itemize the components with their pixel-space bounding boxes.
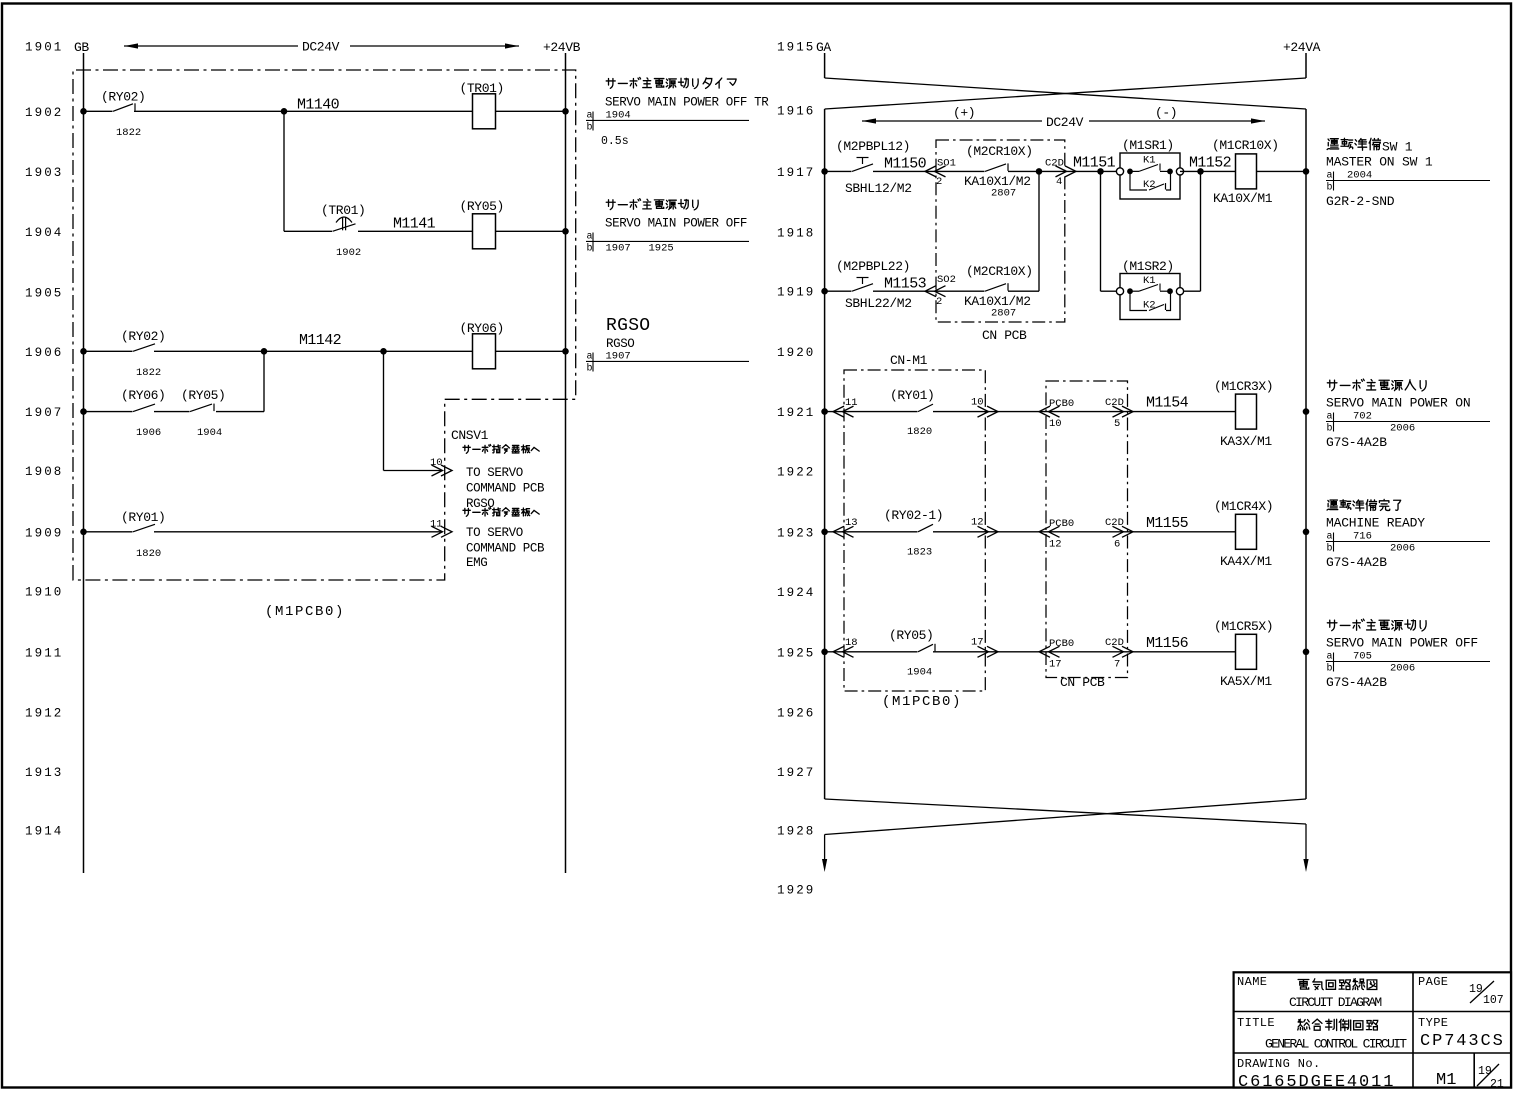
- svg-text:1913: 1913: [25, 766, 63, 780]
- svg-text:1925: 1925: [777, 646, 815, 660]
- svg-text:(M2PBPL12): (M2PBPL12): [836, 139, 910, 154]
- svg-text:b: b: [1327, 182, 1333, 194]
- bus +24VB (right vertical bus): [565, 53, 567, 873]
- node rung1919 @+ bus: [821, 288, 828, 295]
- wire rung 1919 c (to M1151 vertical): [1008, 290, 1039, 292]
- svg-text:1914: 1914: [25, 825, 63, 839]
- bus (+) left vertical: [824, 109, 826, 799]
- wire rung 1904 left: [284, 230, 332, 232]
- node rung1904 @+24VB bus: [562, 228, 569, 235]
- wire rung 1917 e: [1257, 170, 1307, 172]
- node rung1906 @+24VB bus: [562, 348, 569, 355]
- svg-text:1907: 1907: [25, 406, 63, 420]
- svg-text:1927: 1927: [777, 766, 815, 780]
- svg-text:TITLE: TITLE: [1237, 1016, 1275, 1030]
- wire rung 1907 left: [84, 411, 133, 413]
- wire M1152 down to M1SR2: [1200, 171, 1202, 291]
- node rung1907 @GB bus: [80, 408, 87, 415]
- svg-text:1925: 1925: [649, 243, 674, 255]
- wire rung 1917 d: [1180, 170, 1236, 172]
- svg-text:1918: 1918: [777, 226, 815, 240]
- svg-text:M1: M1: [1436, 1071, 1456, 1090]
- svg-text:1920: 1920: [777, 346, 815, 360]
- svg-text:COMMAND PCB: COMMAND PCB: [466, 482, 545, 496]
- contact (RY02-1) (rung 1923): [918, 524, 933, 532]
- svg-text:1820: 1820: [907, 426, 932, 438]
- svg-text:(RY02-1): (RY02-1): [884, 508, 943, 523]
- svg-text:M1140: M1140: [297, 97, 340, 114]
- connector CN-M1 pin 17 chevron: [978, 646, 999, 657]
- contact M2CR10X (rung 1917): [985, 164, 1006, 172]
- svg-text:6: 6: [1114, 538, 1120, 550]
- svg-text:b: b: [1327, 423, 1333, 435]
- svg-text:MACHINE READY: MACHINE READY: [1326, 516, 1425, 531]
- svg-text:SBHL12/M2: SBHL12/M2: [845, 181, 912, 196]
- svg-text:a: a: [1327, 412, 1333, 423]
- svg-text:G7S-4A2B: G7S-4A2B: [1326, 555, 1387, 570]
- svg-text:RGSO: RGSO: [466, 497, 494, 511]
- PCB boundary M1PCB0 (dash-dot outline with CNSV1 notch): [73, 70, 576, 580]
- svg-text:1912: 1912: [25, 706, 63, 720]
- wire rung 1904 right: [496, 230, 566, 232]
- M1SR1 K2 contact branch: [1130, 171, 1171, 190]
- svg-text:(RY01): (RY01): [890, 388, 934, 403]
- wire crossover left-bus to right arrow: [825, 799, 1306, 824]
- svg-text:1909: 1909: [25, 526, 63, 540]
- svg-text:1904: 1904: [25, 226, 63, 240]
- svg-text:SERVO MAIN POWER OFF: SERVO MAIN POWER OFF: [1326, 636, 1478, 651]
- node rung1923 @- bus: [1303, 529, 1310, 536]
- wire rung 1906 right: [496, 350, 566, 352]
- svg-text:21: 21: [1490, 1078, 1504, 1091]
- node rung1902 @GB bus: [80, 108, 87, 115]
- coil RY06: [473, 334, 496, 369]
- svg-text:11: 11: [845, 397, 858, 409]
- M1SR2 K1 contact: [1130, 290, 1139, 292]
- DC24V span arrow (right section): [862, 120, 1042, 122]
- svg-text:2807: 2807: [991, 308, 1016, 320]
- svg-text:1908: 1908: [25, 465, 63, 479]
- svg-text:K2: K2: [1143, 300, 1156, 312]
- svg-text:K1: K1: [1143, 275, 1156, 287]
- svg-text:1929: 1929: [777, 884, 815, 898]
- svg-text:17: 17: [1049, 658, 1062, 670]
- svg-text:SW 1: SW 1: [1382, 140, 1413, 155]
- node M1152: [1197, 168, 1204, 175]
- svg-text:(RY02): (RY02): [121, 329, 165, 344]
- svg-text:2006: 2006: [1390, 663, 1415, 675]
- wire +24VA lead-in: [1305, 53, 1307, 78]
- node rung1909 @GB bus: [80, 529, 87, 536]
- contact RY02 (NO, rung 1902): [113, 104, 133, 112]
- svg-text:12: 12: [971, 517, 984, 529]
- contact TR01 (timer contact, rung 1904): [333, 224, 356, 232]
- svg-text:NAME: NAME: [1237, 975, 1267, 989]
- wire branch M1140 down to rung 1904: [283, 111, 285, 231]
- svg-text:5: 5: [1114, 418, 1120, 430]
- continuation arrow bottom-right: [1305, 824, 1307, 860]
- bus GB (left vertical bus): [83, 53, 85, 873]
- text サーボ指令基板へ (pin10): [463, 444, 539, 453]
- svg-text:19: 19: [1469, 983, 1483, 996]
- svg-text:KA10X/M1: KA10X/M1: [1213, 191, 1273, 206]
- svg-text:PAGE: PAGE: [1418, 975, 1448, 989]
- svg-text:TO SERVO: TO SERVO: [466, 466, 523, 480]
- node M1151: [1036, 168, 1043, 175]
- svg-text:GENERAL CONTROL CIRCUIT: GENERAL CONTROL CIRCUIT: [1265, 1037, 1407, 1052]
- svg-text:CN PCB: CN PCB: [982, 328, 1027, 343]
- svg-text:SERVO MAIN POWER OFF: SERVO MAIN POWER OFF: [605, 217, 747, 231]
- svg-text:107: 107: [1483, 994, 1504, 1007]
- connector CNSV1 pin 11 chevron: [432, 526, 453, 537]
- svg-text:(RY01): (RY01): [121, 510, 165, 525]
- svg-text:CN-M1: CN-M1: [890, 353, 928, 368]
- wire rung 1909 to CNSV1: [154, 531, 442, 533]
- M1SR2 inner nodes: [1127, 288, 1133, 294]
- svg-text:(RY02): (RY02): [101, 90, 145, 105]
- svg-text:(RY06): (RY06): [460, 321, 504, 336]
- svg-text:G7S-4A2B: G7S-4A2B: [1326, 435, 1387, 450]
- M1SR1 terminal circles: [1116, 168, 1123, 175]
- coil M1CR5X: [1236, 634, 1257, 669]
- svg-text:M1152: M1152: [1189, 155, 1231, 172]
- svg-text:GA: GA: [816, 40, 831, 55]
- svg-text:716: 716: [1353, 531, 1372, 543]
- svg-text:(M2CR10X): (M2CR10X): [966, 264, 1033, 279]
- svg-text:1822: 1822: [116, 127, 141, 139]
- svg-text:1911: 1911: [25, 646, 63, 660]
- svg-text:M1154: M1154: [1146, 395, 1189, 412]
- wire rung 1917 a: [825, 170, 852, 172]
- node rung1917 @+ bus: [821, 168, 828, 175]
- wire rung 1902 mid: [134, 110, 473, 112]
- svg-text:(RY06): (RY06): [121, 388, 165, 403]
- svg-text:1822: 1822: [136, 367, 161, 379]
- svg-text:1921: 1921: [777, 406, 815, 420]
- wire rung 1902 left: [84, 110, 113, 112]
- wire rung 1909: [84, 531, 133, 533]
- svg-text:SO2: SO2: [937, 274, 956, 286]
- svg-text:1906: 1906: [136, 427, 161, 439]
- wire rung 1925 a: [825, 651, 918, 653]
- svg-text:1915: 1915: [777, 41, 815, 55]
- svg-text:b: b: [1327, 663, 1333, 675]
- connector C2D pin 7 chevron: [1113, 646, 1134, 657]
- svg-text:C2D: C2D: [1105, 397, 1124, 409]
- svg-text:(TR01): (TR01): [321, 203, 365, 218]
- wire rung 1919 b: [873, 290, 985, 292]
- svg-text:DC24V: DC24V: [1046, 115, 1084, 130]
- svg-text:CIRCUIT DIAGRAM: CIRCUIT DIAGRAM: [1289, 995, 1381, 1010]
- svg-text:M1142: M1142: [299, 332, 341, 349]
- svg-text:1907: 1907: [606, 243, 631, 255]
- connector PCB0 pin 17 chevron: [1039, 646, 1060, 657]
- connector C2D pin 6 chevron: [1113, 526, 1134, 537]
- node rung1917 @- bus: [1303, 168, 1310, 175]
- node rung1921 @+ bus: [821, 408, 828, 415]
- wire rung 1923 b: [933, 531, 1236, 533]
- node M1151b: [1097, 168, 1104, 175]
- svg-text:1906: 1906: [25, 346, 63, 360]
- svg-text:10: 10: [971, 397, 984, 409]
- svg-text:K2: K2: [1143, 179, 1156, 191]
- coil M1CR3X: [1236, 394, 1257, 429]
- svg-text:RGSO: RGSO: [606, 337, 634, 351]
- svg-text:C2D: C2D: [1105, 517, 1124, 529]
- svg-text:18: 18: [845, 637, 858, 649]
- connector CN-M1 pin 12 chevron: [978, 526, 999, 537]
- svg-text:(RY05): (RY05): [181, 388, 225, 403]
- svg-text:b: b: [587, 363, 593, 375]
- svg-text:RGSO: RGSO: [606, 316, 650, 336]
- contact (RY01) (rung 1921): [918, 404, 933, 412]
- svg-text:+24VB: +24VB: [543, 40, 581, 55]
- svg-text:a: a: [1327, 652, 1333, 663]
- node rung1906 @GB bus: [80, 348, 87, 355]
- svg-text:KA4X/M1: KA4X/M1: [1220, 554, 1272, 569]
- svg-text:CP743CS: CP743CS: [1420, 1032, 1505, 1051]
- svg-text:a: a: [1327, 532, 1333, 543]
- svg-text:CN PCB: CN PCB: [1060, 675, 1105, 690]
- svg-text:(M1SR1): (M1SR1): [1122, 138, 1174, 153]
- text 運転準備完了: [1327, 499, 1401, 510]
- wire GA lead-in: [824, 53, 826, 78]
- svg-text:DC24V: DC24V: [302, 40, 340, 55]
- wire rung 1919 a: [825, 290, 852, 292]
- text 総合制御回路: [1298, 1019, 1378, 1031]
- svg-text:1917: 1917: [777, 166, 815, 180]
- svg-text:(M1PCB0): (M1PCB0): [882, 694, 962, 710]
- connector PCB0 pin 12 chevron: [1039, 526, 1060, 537]
- svg-text:(M1CR10X): (M1CR10X): [1212, 138, 1279, 153]
- connector box CN PCB (upper, dash-dot): [936, 140, 1065, 322]
- svg-text:DRAWING No.: DRAWING No.: [1237, 1057, 1321, 1071]
- svg-text:(RY05): (RY05): [889, 628, 933, 643]
- svg-text:TYPE: TYPE: [1418, 1016, 1448, 1030]
- wire rung 1906 mid: [154, 350, 473, 352]
- contact (RY05) (rung 1925): [918, 644, 933, 652]
- svg-text:(M1CR3X): (M1CR3X): [1214, 379, 1273, 394]
- svg-text:1904: 1904: [606, 110, 631, 122]
- M1SR1 inner nodes: [1127, 169, 1133, 175]
- svg-text:4: 4: [1056, 176, 1062, 188]
- svg-text:(M1PCB0): (M1PCB0): [265, 604, 345, 620]
- M1SR2 K2 contact branch: [1130, 291, 1171, 310]
- svg-text:1902: 1902: [336, 247, 361, 259]
- connector CN-M1 pin 13 chevron: [833, 526, 854, 537]
- svg-text:2006: 2006: [1390, 423, 1415, 435]
- svg-text:M1150: M1150: [884, 156, 927, 173]
- svg-text:TO SERVO: TO SERVO: [466, 526, 523, 540]
- connector CN-M1 pin 18 chevron: [833, 646, 854, 657]
- svg-text:EMG: EMG: [466, 556, 487, 570]
- safety relay M1SR1 box: [1120, 153, 1180, 199]
- wire rung 1921 a: [825, 411, 918, 413]
- svg-text:1924: 1924: [777, 586, 815, 600]
- svg-text:C6165DGEE4011: C6165DGEE4011: [1238, 1073, 1395, 1092]
- node M1140 junction: [281, 108, 288, 115]
- svg-text:1820: 1820: [136, 548, 161, 560]
- contact M2PBPL22 (pushbutton): [852, 284, 873, 292]
- svg-text:11: 11: [430, 519, 443, 531]
- connector CN-M1 pin 10 chevron: [978, 406, 999, 417]
- svg-text:1904: 1904: [197, 427, 222, 439]
- svg-text:12: 12: [1049, 538, 1062, 550]
- svg-text:1926: 1926: [777, 706, 815, 720]
- svg-text:1901: 1901: [25, 41, 63, 55]
- svg-text:2807: 2807: [991, 188, 1016, 200]
- svg-text:1922: 1922: [777, 466, 815, 480]
- wire rung 1902 right: [496, 110, 566, 112]
- svg-text:M1141: M1141: [393, 216, 436, 233]
- connector CNSV1 pin 10 chevron: [432, 465, 453, 476]
- svg-text:M1155: M1155: [1146, 515, 1189, 532]
- node rung1925 @+ bus: [821, 649, 828, 656]
- svg-text:10: 10: [430, 457, 443, 469]
- continuation arrow bottom-left: [824, 835, 826, 861]
- coil TR01 (timer): [473, 94, 496, 129]
- wire M1151 down to rung 1919: [1038, 171, 1040, 291]
- svg-text:GB: GB: [74, 40, 89, 55]
- connector C2D chevron (rung 1917): [1056, 166, 1077, 177]
- svg-text:KA5X/M1: KA5X/M1: [1220, 674, 1272, 689]
- text 運転準備SW1: [1327, 138, 1380, 150]
- svg-text:KA3X/M1: KA3X/M1: [1220, 434, 1272, 449]
- svg-text:17: 17: [971, 637, 984, 649]
- contact M2CR10X (rung 1919): [985, 284, 1006, 292]
- wire rung 1917 b: [873, 170, 985, 172]
- wire M1151b down to M1SR2: [1100, 171, 1102, 291]
- svg-text:SERVO MAIN POWER ON: SERVO MAIN POWER ON: [1326, 396, 1470, 411]
- svg-text:(-): (-): [1155, 106, 1177, 121]
- svg-text:7: 7: [1114, 658, 1120, 670]
- wire rung 1925 b: [933, 651, 1236, 653]
- contact RY01 (rung 1909): [133, 524, 155, 532]
- svg-text:1903: 1903: [25, 166, 63, 180]
- connector C2D pin 5 chevron: [1113, 406, 1134, 417]
- svg-text:2: 2: [936, 176, 942, 188]
- svg-text:1902: 1902: [25, 106, 63, 120]
- svg-text:702: 702: [1353, 411, 1372, 423]
- svg-text:1905: 1905: [25, 286, 63, 300]
- svg-text:a: a: [1327, 171, 1333, 182]
- wire crossover GA to right bus: [825, 78, 1306, 109]
- svg-text:13: 13: [845, 517, 858, 529]
- svg-text:0.5s: 0.5s: [601, 135, 629, 148]
- node rung1921 @- bus: [1303, 408, 1310, 415]
- svg-text:b: b: [587, 122, 593, 134]
- svg-text:G7S-4A2B: G7S-4A2B: [1326, 675, 1387, 690]
- svg-text:G2R-2-SND: G2R-2-SND: [1326, 194, 1395, 209]
- svg-text:1928: 1928: [777, 825, 815, 839]
- connector CN-M1 pin 11 chevron: [833, 406, 854, 417]
- svg-text:(+): (+): [953, 106, 975, 121]
- svg-text:1919: 1919: [777, 286, 815, 300]
- contact RY05 (rung 1907): [190, 404, 212, 412]
- node rung1923 @+ bus: [821, 529, 828, 536]
- DC24V span arrow (left section): [124, 45, 298, 47]
- svg-text:19: 19: [1478, 1065, 1492, 1078]
- svg-text:COMMAND PCB: COMMAND PCB: [466, 542, 545, 556]
- text サーボ主電源入り: [1327, 379, 1426, 391]
- connector SO1 chevron: [925, 166, 946, 177]
- svg-text:1923: 1923: [777, 526, 815, 540]
- svg-text:10: 10: [1049, 418, 1062, 430]
- wire rung1906 branch down to CNSV1 pin 10: [383, 351, 385, 470]
- svg-text:1916: 1916: [777, 105, 815, 119]
- wire rung 1906 left: [84, 350, 133, 352]
- svg-text:M1153: M1153: [884, 276, 927, 293]
- svg-text:1910: 1910: [25, 586, 63, 600]
- svg-text:(M1SR2): (M1SR2): [1122, 259, 1174, 274]
- node rung1906 junction B (to CNSV1 pin10): [380, 348, 387, 355]
- svg-text:1904: 1904: [907, 666, 932, 678]
- svg-text:(M1CR5X): (M1CR5X): [1214, 619, 1273, 634]
- svg-text:SERVO MAIN POWER OFF TR: SERVO MAIN POWER OFF TR: [605, 96, 769, 110]
- node rung1902 @+24VB bus: [562, 108, 569, 115]
- connector PCB0 pin 10 chevron: [1039, 406, 1060, 417]
- title block frame: [1234, 972, 1511, 1087]
- text サーボ主電源切り (rung1925): [1327, 619, 1426, 631]
- svg-text:b: b: [1327, 543, 1333, 555]
- wire rung 1923 a: [825, 531, 918, 533]
- svg-text:K1: K1: [1143, 155, 1156, 167]
- svg-text:(M1CR4X): (M1CR4X): [1214, 499, 1273, 514]
- svg-text:705: 705: [1353, 651, 1372, 663]
- connector box CN PCB (lower, dash-dot): [1046, 381, 1128, 678]
- svg-text:SBHL22/M2: SBHL22/M2: [845, 296, 912, 311]
- svg-text:(TR01): (TR01): [460, 81, 504, 96]
- svg-text:(RY05): (RY05): [460, 199, 504, 214]
- svg-text:C2D: C2D: [1105, 637, 1124, 649]
- wire rung 1921 b: [933, 411, 1236, 413]
- svg-text:(M2CR10X): (M2CR10X): [966, 144, 1033, 159]
- connector box CN-M1 (dash-dot): [844, 370, 985, 691]
- wire rung 1907 between contacts: [154, 411, 190, 413]
- svg-text:C2D: C2D: [1045, 158, 1064, 170]
- svg-text:1823: 1823: [907, 546, 932, 558]
- M1SR1 K1 contact: [1130, 170, 1139, 172]
- coil M1CR10X: [1236, 154, 1257, 189]
- svg-text:M1156: M1156: [1146, 635, 1189, 652]
- svg-text:b: b: [587, 243, 593, 255]
- wire crossover +24VA to left bus: [825, 78, 1306, 109]
- connector SO2 chevron: [925, 286, 946, 297]
- svg-text:2004: 2004: [1347, 170, 1372, 182]
- bus (-) right vertical: [1305, 109, 1307, 799]
- wire rung 1907 up to rung 1906: [216, 411, 264, 413]
- svg-text:CNSV1: CNSV1: [451, 428, 489, 443]
- wire rung 1904 mid: [358, 230, 473, 232]
- svg-text:1907: 1907: [606, 351, 631, 363]
- svg-text:M1151: M1151: [1073, 155, 1116, 172]
- text サーボ主電源切り (rung1904): [606, 199, 698, 210]
- contact M2PBPL12 (pushbutton): [852, 164, 873, 172]
- svg-text:SO1: SO1: [937, 158, 956, 170]
- svg-text:2: 2: [936, 296, 942, 308]
- text サーボ主電源切りタイマ: [606, 77, 736, 88]
- svg-text:PCB0: PCB0: [1049, 638, 1074, 650]
- coil RY05: [473, 214, 496, 249]
- wire crossover right-bus to left arrow: [825, 799, 1306, 835]
- text サーボ指令基板へ (pin11): [463, 507, 539, 516]
- text 電気回路線図: [1298, 979, 1377, 990]
- contact RY06 (rung 1907): [133, 404, 155, 412]
- node rung1925 @- bus: [1303, 649, 1310, 656]
- node rung1906 junction A (to rung 1907): [261, 348, 268, 355]
- svg-text:MASTER ON SW 1: MASTER ON SW 1: [1326, 155, 1433, 170]
- svg-text:+24VA: +24VA: [1283, 40, 1321, 55]
